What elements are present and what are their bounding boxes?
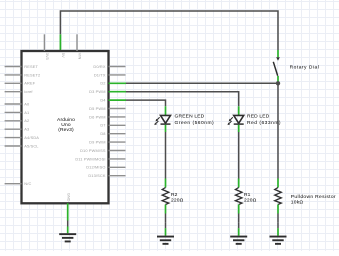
svg-text:A2: A2 (24, 118, 29, 123)
svg-text:Rotary Dial: Rotary Dial (290, 64, 320, 70)
svg-text:D4: D4 (100, 98, 106, 103)
svg-text:D2: D2 (100, 81, 105, 86)
svg-text:D10 PWM/SS: D10 PWM/SS (80, 148, 106, 153)
svg-text:220Ω: 220Ω (171, 197, 184, 203)
svg-text:ioref: ioref (24, 89, 33, 94)
svg-text:D12/MISO: D12/MISO (86, 165, 105, 170)
svg-text:220Ω: 220Ω (244, 197, 257, 203)
svg-text:A1: A1 (24, 110, 29, 115)
svg-text:D1/TX: D1/TX (94, 72, 106, 77)
svg-text:A0: A0 (24, 101, 30, 106)
svg-text:Green (560nm): Green (560nm) (175, 120, 215, 126)
svg-text:Pulldown Resistor: Pulldown Resistor (291, 194, 336, 200)
svg-text:RESET2: RESET2 (24, 72, 40, 77)
svg-text:D11 PWM/MOSI: D11 PWM/MOSI (75, 156, 105, 161)
svg-text:D0/RX: D0/RX (93, 64, 105, 69)
svg-text:5V: 5V (61, 53, 66, 58)
svg-text:RED LED: RED LED (247, 114, 270, 120)
svg-text:A5/SCL: A5/SCL (24, 143, 39, 148)
svg-text:GND: GND (67, 193, 72, 202)
svg-text:A3: A3 (24, 127, 29, 132)
svg-text:D6 PWM: D6 PWM (89, 114, 105, 119)
svg-text:10kΩ: 10kΩ (291, 199, 304, 205)
svg-text:GREEN LED: GREEN LED (175, 114, 205, 120)
svg-text:R1: R1 (244, 192, 251, 198)
svg-text:RESET: RESET (24, 64, 38, 69)
svg-text:VIN: VIN (78, 53, 83, 60)
svg-text:D13/SCK: D13/SCK (88, 173, 106, 178)
svg-text:A4/SDA: A4/SDA (24, 135, 39, 140)
svg-text:AREF: AREF (24, 81, 35, 86)
svg-text:D5 PWM: D5 PWM (89, 106, 105, 111)
svg-text:Red (633nm): Red (633nm) (247, 120, 281, 126)
svg-text:D3 PWM: D3 PWM (89, 89, 105, 94)
svg-text:(Rev3): (Rev3) (58, 127, 74, 133)
svg-text:D8: D8 (100, 131, 105, 136)
svg-text:N/C: N/C (24, 181, 31, 186)
svg-text:D7: D7 (100, 123, 105, 128)
svg-text:D9 PWM: D9 PWM (89, 140, 105, 145)
svg-text:3V3: 3V3 (45, 53, 50, 60)
svg-text:R2: R2 (171, 192, 178, 198)
